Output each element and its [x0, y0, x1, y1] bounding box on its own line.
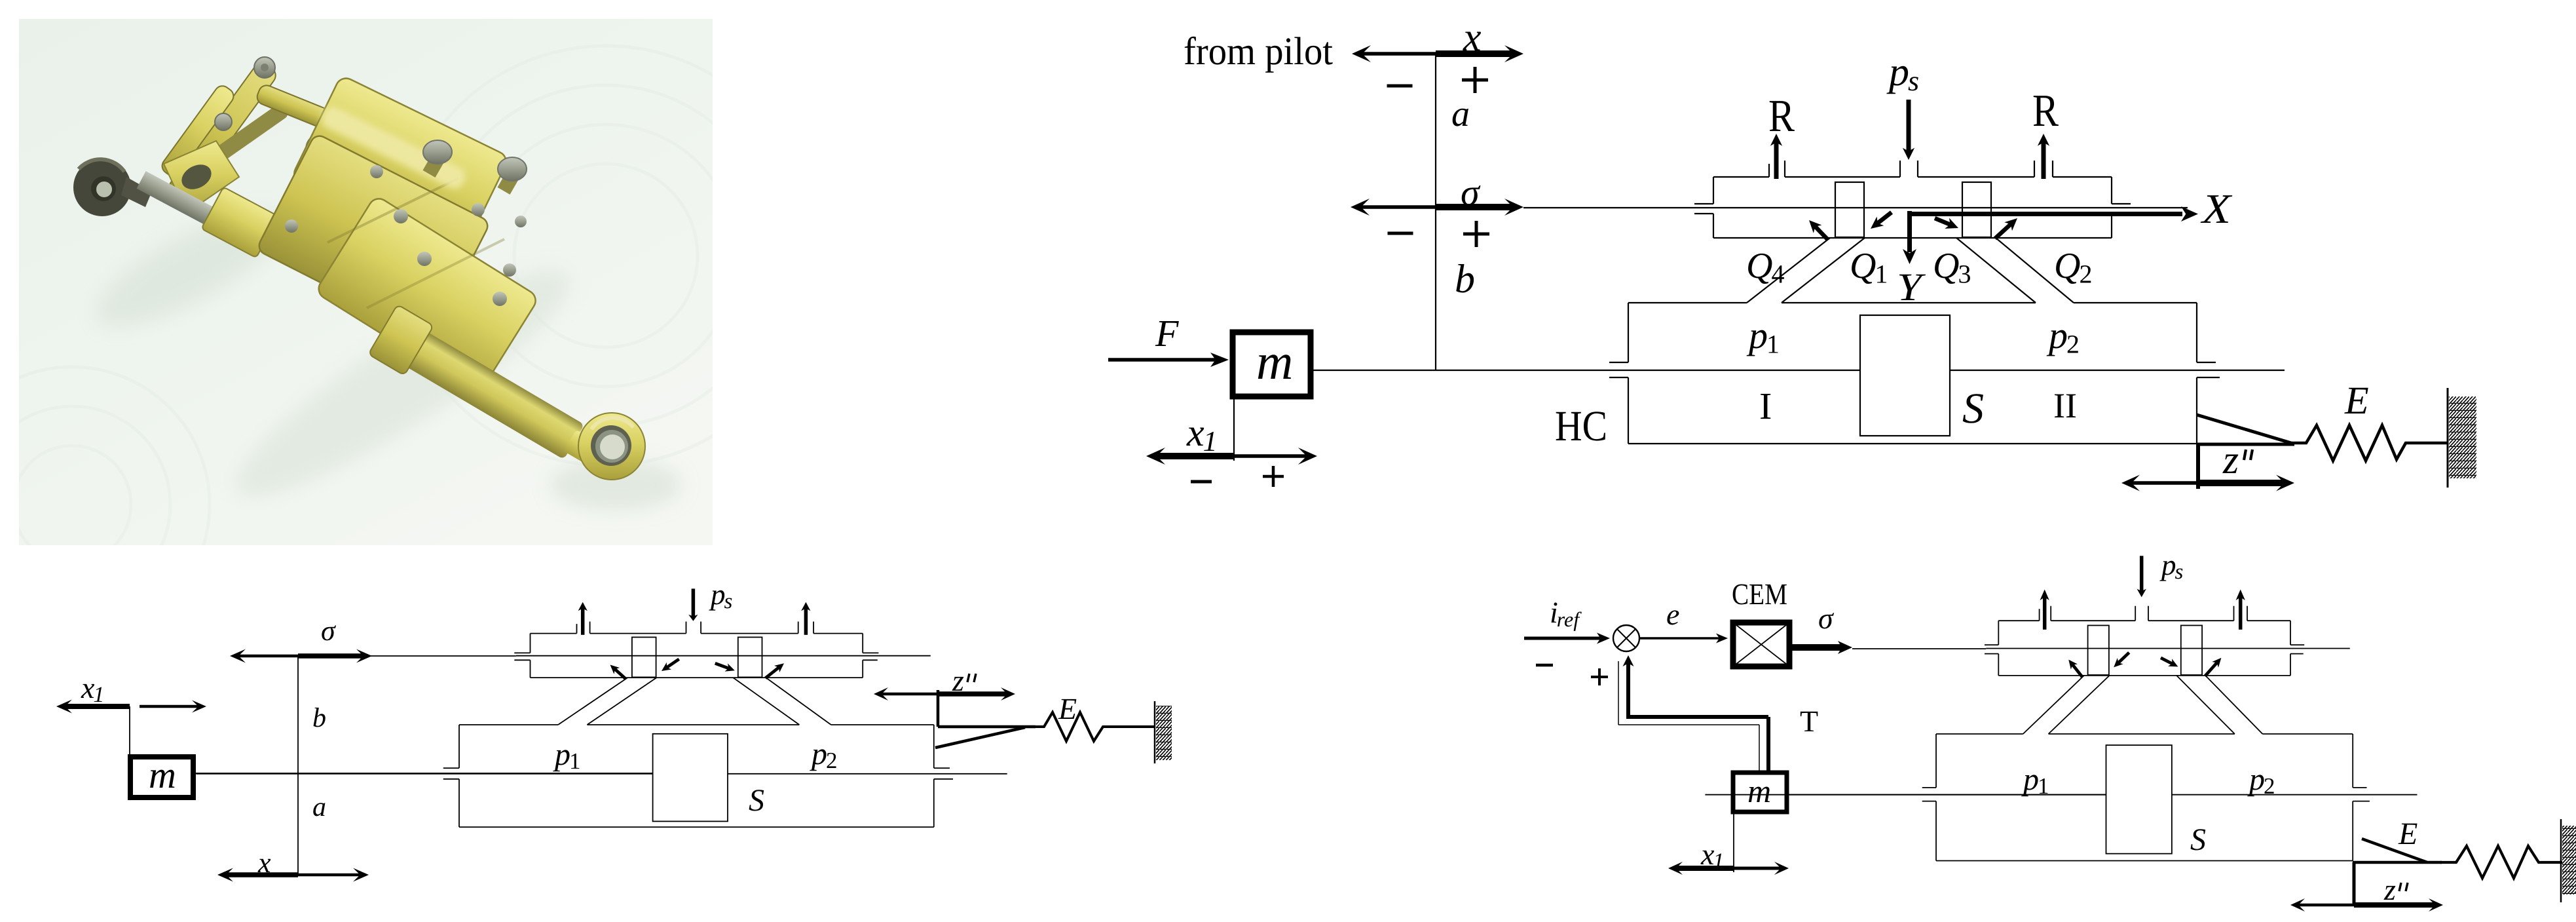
svg-text:x: x — [257, 847, 271, 879]
BR displacement arrow z'' — [2298, 904, 2354, 907]
TR cylinder bottom wall — [1628, 443, 2197, 444]
svg-text:S: S — [2190, 822, 2206, 857]
svg-text:R: R — [1768, 91, 1795, 142]
photo linkage pivot bolt top — [254, 57, 275, 78]
BL piston rod from mass — [192, 773, 653, 774]
photo top bolt 2 stem — [497, 164, 523, 195]
BR flow arrow Q2 — [2205, 662, 2218, 676]
svg-text:σ: σ — [1818, 602, 1835, 635]
BL spool rod — [516, 655, 931, 657]
TR feedback lever diagonal — [2197, 415, 2291, 443]
photo shadow under actuator — [216, 242, 590, 525]
TR return flow arrow R right — [2042, 141, 2046, 179]
TR spool land left — [1835, 182, 1864, 237]
TR thick slide arrow X elbow — [1907, 212, 2182, 216]
TR piston S — [1860, 315, 1950, 436]
TR label plus (x) — [1462, 79, 1488, 82]
TR ground wall hatch — [2449, 396, 2476, 478]
svg-text:S: S — [749, 783, 764, 818]
BR spool land right — [2181, 625, 2202, 675]
BL valve supply port ps stubs — [686, 622, 687, 634]
TR flow arrow Q2 — [1995, 223, 2012, 239]
BR wire m to x1 axis — [1733, 812, 1734, 872]
TR channel wall Q4 inner — [1782, 238, 1865, 303]
TR sigma link wire — [1523, 207, 1696, 208]
BL input lever line — [297, 656, 299, 875]
TR piston rod left segment — [1313, 370, 1860, 371]
BR ground wall hatch — [2562, 826, 2576, 894]
BL displacement arrow x1 right — [140, 705, 199, 708]
BL channel wall Q4 inner — [587, 678, 656, 725]
BL feedback lever pivot — [937, 690, 940, 727]
BL mass block m — [130, 757, 193, 797]
BL wire x1 to mass — [129, 706, 130, 754]
BR valve supply port ps stubs — [2135, 606, 2136, 621]
BR sigma link wire — [1852, 648, 1986, 649]
BL valve return port R right stubs — [798, 622, 799, 634]
BL supply pressure arrow ps — [692, 588, 696, 617]
BR feedback lever pivot — [2353, 862, 2356, 904]
BL channel wall Q4 outer — [558, 678, 627, 725]
TR label minus (x) — [1387, 85, 1413, 88]
BR input arrow iref — [1524, 637, 1602, 640]
TR valve return port R left stubs — [1768, 164, 1770, 177]
BL piston rod right segment — [728, 773, 1007, 775]
svg-text:σ: σ — [321, 615, 337, 647]
photo body crevice line 2 — [367, 239, 504, 308]
BR channel wall Q2 inner — [2176, 676, 2235, 734]
TR valve body bottom wall — [1713, 237, 2112, 239]
BR electromechanical converter CEM box — [1733, 623, 1789, 666]
TR displacement arrow x — [1362, 52, 1436, 56]
BL flow arrow Q4 — [614, 668, 626, 679]
svg-text:T: T — [1800, 704, 1818, 738]
photo rocker bolt a — [337, 107, 353, 123]
BL displacement arrow z'' — [881, 693, 938, 696]
svg-text:σ: σ — [1461, 171, 1481, 214]
svg-text:HC: HC — [1555, 402, 1607, 450]
photo clamp hole — [177, 160, 215, 195]
photo small bolt 7 — [285, 220, 298, 233]
photo eye rod end left — [73, 159, 131, 216]
BR channel wall Q4 outer — [2023, 676, 2084, 734]
photo background — [19, 19, 713, 545]
BR flow arrow Q1 — [2118, 653, 2129, 664]
BR flow arrow Q3 — [2161, 658, 2173, 664]
BL channel wall Q2 outer — [766, 678, 831, 725]
photo clamp block — [164, 141, 239, 213]
BL feedback lever bar — [938, 725, 1036, 729]
svg-text:b: b — [312, 703, 326, 733]
BR summing junction — [1613, 625, 1639, 651]
TR valve supply port ps stubs — [1899, 161, 1901, 177]
svg-text:E: E — [2398, 816, 2417, 851]
BR label plus (feedback) — [1591, 676, 1608, 678]
BL piston S — [653, 734, 728, 822]
BR cylinder top wall — [1936, 733, 2023, 735]
photo eye stem — [121, 177, 152, 207]
BR valve left wall and rod gland — [1998, 621, 1999, 645]
BR cylinder bottom wall — [1936, 860, 2353, 862]
BL piston rod left segment — [196, 773, 652, 775]
TR valve right wall and rod gland — [2111, 177, 2112, 204]
svg-text:m: m — [1747, 773, 1771, 809]
TR flow arrow Q1 — [1876, 212, 1892, 224]
BL return flow arrow R right — [804, 607, 808, 635]
BR channel wall Q2 outer — [2205, 676, 2262, 734]
BL cylinder left wall and rod gland — [458, 725, 460, 768]
TR ground wall line — [2447, 388, 2449, 488]
BR channel wall Q4 inner — [2049, 676, 2110, 734]
TR flow arrow Q4 — [1814, 225, 1828, 240]
BL displacement arrow x — [225, 872, 298, 877]
TR channel wall Q2 inner — [1956, 238, 2036, 303]
TR valve body top wall — [1713, 176, 1769, 178]
photo main body block lower — [315, 195, 540, 394]
svg-text:b: b — [1455, 257, 1475, 301]
TR feedback lever pivot — [2196, 444, 2200, 489]
photo upper linkage arm 2 — [159, 83, 236, 179]
TR valve left wall and rod gland — [1713, 177, 1714, 204]
TR channel wall Q4 outer — [1747, 238, 1830, 303]
BL cylinder right wall and rod gland — [933, 725, 935, 768]
photo main body block upper — [291, 75, 510, 261]
svg-text:E: E — [2344, 379, 2369, 422]
BL valve body bottom wall — [531, 677, 863, 678]
BR flow arrow Q4 — [2072, 664, 2083, 677]
TR force arrow F — [1108, 358, 1218, 362]
TR cylinder left wall and rod gland — [1628, 303, 1629, 362]
photo top bolt 2 cap — [498, 157, 527, 181]
BR displacement arrow x1 — [1675, 866, 1734, 871]
photo rocker bolt b — [345, 137, 357, 149]
BR piston rod from mass — [1787, 794, 2106, 796]
svg-text:from pilot: from pilot — [1184, 29, 1333, 73]
BL return flow arrow R left — [581, 607, 585, 635]
photo rocker arm right — [255, 83, 341, 134]
BL spool land left — [632, 637, 656, 677]
BR spool rod — [1986, 648, 2350, 649]
TR valve return port R right stubs — [2034, 161, 2035, 177]
BL spool land right — [738, 637, 762, 677]
BR piston rod left segment — [1705, 794, 2106, 796]
svg-text:x: x — [1463, 15, 1482, 60]
BR cylinder right wall and rod gland — [2352, 734, 2353, 788]
BR label minus (iref) — [1536, 664, 1553, 667]
BR return flow arrow R right — [2239, 596, 2243, 629]
photo body highlight — [318, 104, 468, 192]
BR feedback arrow into junction — [1623, 655, 1634, 666]
BR mass block m — [1733, 773, 1787, 812]
BL displacement arrow x1 left — [64, 704, 130, 709]
svg-text:X: X — [2200, 185, 2233, 232]
TR channel wall Q2 outer — [1996, 238, 2074, 303]
photo top bolt 1 cap — [423, 140, 452, 164]
TR label minus (x1) — [1191, 480, 1212, 484]
photo piston rod left — [137, 171, 262, 250]
photo body crevice line 1 — [327, 178, 458, 242]
BR spool land left — [2088, 625, 2109, 675]
BL ground wall line — [1154, 701, 1156, 763]
BR piston S — [2106, 745, 2172, 854]
svg-text:m: m — [1256, 333, 1293, 390]
BL valve return port R left stubs — [576, 624, 578, 634]
photo small bolt 8 — [515, 216, 527, 227]
photo small bolt 6 — [370, 165, 383, 178]
TR flow arrow Y — [1907, 211, 1912, 252]
BR spring E — [2440, 846, 2562, 878]
BL spring E — [1032, 712, 1155, 741]
BL valve body top wall — [531, 633, 577, 634]
BR valve body bottom wall — [1998, 675, 2290, 676]
photograph of hydro-mechanical servo actuator — [0, 19, 815, 642]
TR displacement arrow x1 — [1156, 453, 1235, 459]
TR cylinder right wall and rod gland — [2196, 303, 2197, 362]
BR feedback wire shadow line — [1618, 661, 1619, 725]
TR supply pressure arrow ps — [1907, 100, 1911, 153]
BL sigma link wire — [367, 655, 516, 657]
photo small bolt 3 — [472, 203, 485, 216]
svg-text:E: E — [1058, 692, 1077, 725]
BR wire junction to CEM — [1639, 637, 1721, 640]
BL channel wall Q2 inner — [733, 678, 799, 725]
photo rod collar gold — [201, 187, 278, 258]
svg-text:m: m — [149, 754, 176, 796]
svg-text:CEM: CEM — [1732, 577, 1787, 611]
TR flow arrow Q3 — [1935, 218, 1952, 225]
svg-text:II: II — [2053, 386, 2077, 425]
TR feedback lever bar — [2197, 443, 2294, 446]
svg-text:z: z — [952, 664, 964, 697]
svg-text:z: z — [2222, 438, 2239, 482]
svg-text:a: a — [312, 792, 326, 822]
BL valve right wall and rod gland — [862, 634, 863, 653]
TR displacement arrow z'' — [2131, 481, 2198, 485]
TR label plus (sigma) — [1463, 233, 1489, 236]
BL valve left wall and rod gland — [530, 634, 531, 653]
TR label minus (sigma) — [1388, 232, 1413, 235]
BR feedback lever bar — [2353, 861, 2442, 864]
photo cylinder barrel — [368, 305, 610, 480]
BR valve return port R left stubs — [2039, 609, 2040, 621]
BR supply pressure arrow ps — [2140, 556, 2144, 592]
BL feedback lever diagonal — [935, 727, 1025, 748]
photo small bolt 1 — [394, 209, 408, 223]
BR valve right wall and rod gland — [2290, 621, 2291, 645]
TR control arrow sigma — [1360, 205, 1436, 209]
BL cylinder top wall — [459, 724, 558, 725]
photo small bolt 4 — [493, 292, 507, 306]
photo small bolt 2 — [417, 252, 432, 266]
photo rod end eye right — [578, 413, 645, 480]
svg-text:R: R — [2032, 86, 2059, 136]
photo upper linkage arm 1 — [166, 60, 279, 203]
photo background watermark rings — [0, 46, 815, 642]
BR feedback lever diagonal — [2362, 839, 2427, 862]
svg-text:I: I — [1759, 385, 1772, 427]
TR mass block m — [1233, 332, 1311, 396]
TR label plus (x1) — [1263, 475, 1284, 478]
svg-text:a: a — [1451, 94, 1470, 134]
photo linkage pivot bolt mid — [215, 113, 232, 130]
BL control arrow sigma — [238, 655, 298, 658]
TR spool rod — [1696, 207, 2188, 208]
svg-text:e: e — [1666, 598, 1679, 631]
BL flow arrow Q3 — [715, 663, 730, 668]
TR spool land right — [1962, 182, 1991, 237]
TR piston rod right segment — [1950, 370, 2285, 371]
TR spring E — [2291, 425, 2448, 461]
BR valve return port R right stubs — [2233, 606, 2235, 621]
TR input lever line — [1435, 54, 1436, 370]
BR ground wall line — [2560, 819, 2562, 902]
BL ground wall hatch — [1156, 706, 1172, 760]
BR cylinder left wall and rod gland — [1935, 734, 1937, 788]
BL flow arrow Q2 — [766, 667, 780, 678]
BR return flow arrow R left — [2043, 596, 2047, 629]
svg-text:F: F — [1155, 312, 1179, 355]
TR return flow arrow R left — [1774, 141, 1779, 179]
photo rocker pivot disc — [305, 132, 339, 166]
BR control arrow sigma — [1792, 644, 1844, 651]
photo linkage cross link — [201, 102, 291, 171]
svg-text:z: z — [2383, 873, 2396, 906]
svg-text:Y: Y — [1897, 265, 1926, 309]
TR wire m to x1 axis — [1233, 399, 1235, 461]
BR valve body top wall — [1998, 620, 2039, 621]
photo top bolt 1 stem — [422, 147, 448, 178]
svg-text:S: S — [1962, 385, 1984, 432]
TR cylinder top wall — [1628, 302, 1747, 303]
photo main body block front — [256, 133, 491, 339]
TR slide arrow X head — [2181, 206, 2198, 221]
BR piston rod right segment — [2172, 794, 2417, 796]
BL cylinder bottom wall — [459, 826, 934, 828]
BL flow arrow Q1 — [666, 659, 679, 668]
photo small bolt 5 — [503, 263, 516, 277]
